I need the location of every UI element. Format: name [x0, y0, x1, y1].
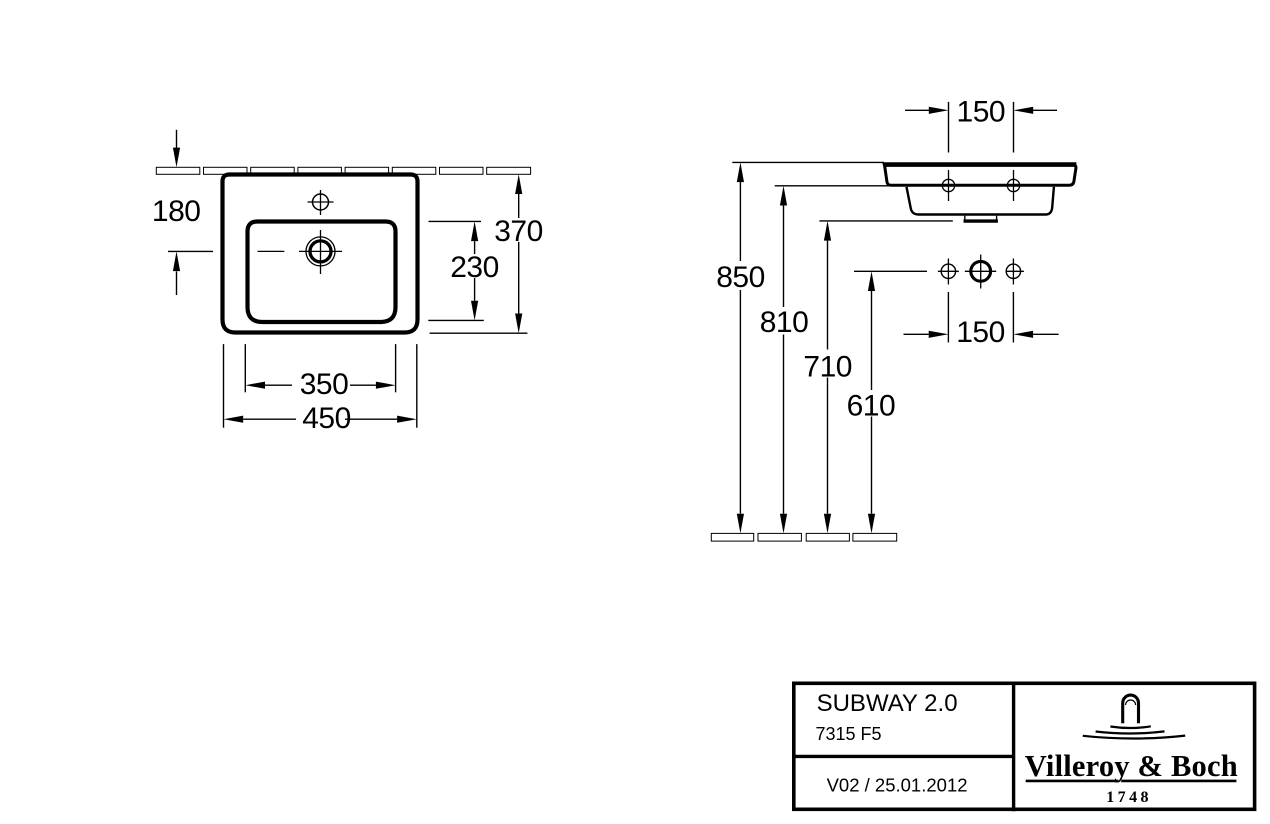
- svg-text:370: 370: [494, 215, 543, 248]
- VB logo underline right: [1121, 780, 1236, 783]
- basin outer outline (front view): [223, 175, 418, 333]
- dimension 180: [168, 130, 213, 295]
- dimension 370: [430, 194, 528, 333]
- dimension 150 top: [905, 102, 1057, 153]
- title block outer frame: [794, 683, 1255, 809]
- VB logo underline left: [1026, 780, 1119, 783]
- floor tile row: [711, 533, 896, 541]
- tap hole small left: [941, 264, 955, 278]
- svg-text:230: 230: [450, 251, 499, 284]
- drain stub (side view): [965, 216, 997, 220]
- svg-text:180: 180: [152, 195, 201, 228]
- svg-text:450: 450: [302, 402, 351, 435]
- dimension 150 bottom: [904, 292, 1059, 343]
- drain inner circle: [310, 241, 331, 262]
- faucet hole circle: [313, 194, 329, 210]
- svg-text:Villeroy & Boch: Villeroy & Boch: [1025, 749, 1238, 783]
- drain crosshair: [258, 230, 343, 274]
- VB logo ripple 1: [1110, 726, 1150, 728]
- tap hole row crosshair: [938, 255, 1024, 289]
- dimension 610: [854, 271, 927, 513]
- dimension 710: [819, 221, 952, 514]
- svg-text:7315 F5: 7315 F5: [816, 724, 882, 744]
- dimension 450: [224, 344, 417, 428]
- rim fastening hole right: [1013, 170, 1015, 201]
- basin bowl (side view): [907, 187, 1054, 215]
- basin rim (side view): [884, 164, 1076, 185]
- svg-text:150: 150: [957, 96, 1006, 129]
- svg-text:350: 350: [300, 368, 349, 401]
- rim fastening hole left: [948, 170, 950, 201]
- dimension 230: [428, 221, 484, 320]
- faucet hole crosshair: [308, 190, 334, 215]
- svg-text:850: 850: [716, 261, 765, 294]
- VB logo ripple 3: [1083, 736, 1185, 739]
- dimension 810: [775, 186, 889, 514]
- svg-text:150: 150: [956, 316, 1005, 349]
- dimension 850: [732, 162, 884, 513]
- wall tile row: [156, 167, 530, 174]
- VB logo arch inner line: [1126, 700, 1136, 705]
- svg-text:1748: 1748: [1106, 789, 1152, 806]
- VB logo ripple 2: [1096, 731, 1165, 733]
- svg-text:SUBWAY 2.0: SUBWAY 2.0: [817, 690, 958, 717]
- svg-text:610: 610: [847, 389, 896, 422]
- tap hole center: [971, 261, 991, 281]
- basin rim top edge: [884, 162, 1077, 167]
- drain outer circle: [306, 237, 335, 266]
- tap hole small right: [1006, 264, 1020, 278]
- VB logo arch: [1123, 695, 1139, 723]
- svg-text:810: 810: [760, 306, 809, 339]
- title block vertical divider: [1012, 682, 1015, 812]
- dimension 350: [245, 344, 395, 392]
- svg-text:710: 710: [803, 350, 852, 383]
- basin inner bowl (front view): [248, 222, 396, 323]
- svg-text:V02 / 25.01.2012: V02 / 25.01.2012: [827, 774, 968, 795]
- title block horizontal divider: [792, 755, 1014, 758]
